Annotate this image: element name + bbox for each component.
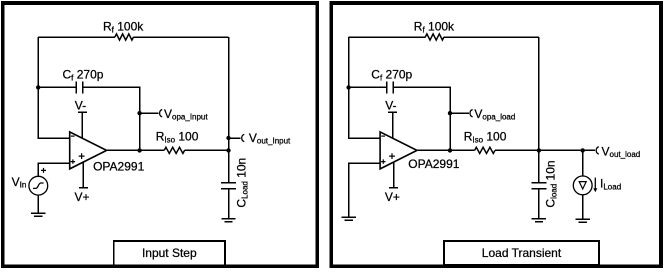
power rail V+ (left panel) [79, 162, 88, 188]
wire: feedback right vertical (left panel) [228, 37, 230, 150]
wire: Cf right lead down to output node (right panel) [394, 87, 450, 150]
wire: feedback right vertical (right panel) [538, 37, 540, 150]
terminal Vout_Input (left panel) [242, 134, 245, 141]
caption box Load Transient (right panel) [444, 241, 599, 265]
svg-text:V-: V- [75, 98, 86, 112]
wire: ILoad to ground (right panel) [582, 195, 584, 220]
capacitor Cload (right panel) [531, 183, 546, 189]
source Vin (left panel) [29, 168, 48, 195]
op-amp U2 OPA2991 (right panel) [380, 132, 417, 169]
ground (Cload, right panel) [532, 219, 546, 222]
junction node Vout tap (left panel) [226, 136, 230, 140]
wire: ILoad top lead (right panel) [582, 150, 584, 176]
wire: Cf left lead (left panel) [38, 86, 75, 88]
resistor Riso (left panel) [164, 147, 184, 153]
svg-text:OPA2991: OPA2991 [408, 157, 459, 171]
wire: Riso to Vout terminal (right panel) [495, 149, 595, 151]
wire: top feedback left segment (left panel) [38, 36, 115, 38]
resistor Riso (right panel) [475, 147, 495, 153]
wire: non-inverting input to ground (right panel) [349, 163, 381, 217]
wire: Vout tap (left panel) [229, 137, 241, 139]
wire: Vopa tap (left panel) [140, 112, 159, 114]
ground (Vin, left panel) [31, 213, 45, 216]
svg-text:Rf 100k: Rf 100k [103, 20, 144, 35]
power rail V- (right panel) [388, 112, 397, 138]
wire: op-amp output (left panel) [107, 149, 165, 151]
junction node feedback/Cf (right panel) [346, 85, 350, 89]
terminal Vopa_Input (left panel) [160, 110, 163, 117]
junction node feedback/Cf (left panel) [36, 85, 40, 89]
wire: op-amp output (right panel) [417, 149, 475, 151]
caption box Input Step (left panel) [114, 241, 225, 265]
ground (ILoad, right panel) [576, 219, 590, 222]
ground (Cload, left panel) [221, 219, 235, 222]
junction node ILoad tap (right panel) [581, 148, 585, 152]
wire: top feedback left segment (right panel) [349, 36, 426, 38]
arrow: ILoad current direction (right panel) [593, 178, 597, 193]
svg-text:RIso 100: RIso 100 [464, 129, 507, 144]
junction node feedback sense (left panel) [137, 148, 141, 152]
svg-text:Load Transient: Load Transient [482, 246, 562, 260]
ground (non-inverting input, right panel) [342, 217, 356, 220]
junction node Vopa (right panel) [448, 111, 452, 115]
svg-text:Cf 270p: Cf 270p [371, 68, 412, 83]
junction node output/Cload (right panel) [537, 148, 541, 152]
wire: Cload top lead (left panel) [228, 150, 230, 182]
op-amp U1 OPA2991 (left panel) [70, 132, 107, 169]
terminal Vopa_load (right panel) [470, 110, 473, 117]
capacitor Cf (left panel) [76, 82, 82, 94]
resistor Rf (left panel) [115, 34, 134, 40]
power rail V- (left panel) [78, 112, 87, 138]
wire: Cload bottom lead (left panel) [228, 189, 230, 218]
capacitor Cload (left panel) [221, 183, 236, 189]
junction node feedback sense (right panel) [448, 148, 452, 152]
wire: Vin to ground (left panel) [37, 195, 39, 213]
svg-text:V-: V- [385, 98, 396, 112]
wire: Riso to output node (left panel) [185, 149, 229, 151]
wire: non-inverting input (left panel) [38, 163, 70, 176]
current source ILoad (right panel) [573, 176, 592, 195]
svg-text:OPA2991: OPA2991 [93, 160, 144, 174]
wire: Cf left lead (right panel) [349, 86, 387, 88]
wire: Cload bottom lead (right panel) [538, 189, 540, 218]
svg-text:Cload 10n: Cload 10n [543, 160, 558, 207]
svg-text:Input Step: Input Step [142, 246, 197, 260]
wire: feedback left vertical + inverting input (right panel) [349, 37, 381, 138]
svg-text:Rf 100k: Rf 100k [414, 20, 455, 35]
wire: top feedback right segment (right panel) [444, 36, 539, 38]
svg-text:Cf 270p: Cf 270p [63, 68, 104, 83]
wire: feedback left vertical + inverting input (left panel) [38, 37, 70, 138]
terminal Vout_load (right panel) [596, 147, 599, 154]
wire: Cload top lead (right panel) [538, 150, 540, 182]
svg-text:V+: V+ [385, 190, 400, 204]
wire: Vopa tap (right panel) [450, 112, 469, 114]
power rail V+ (right panel) [389, 162, 398, 188]
wire: top feedback right segment (left panel) [134, 36, 229, 38]
wire: Cf right lead down to output node (left panel) [83, 87, 139, 150]
resistor Rf (right panel) [425, 34, 444, 40]
junction node output/Cload (left panel) [226, 148, 230, 152]
capacitor Cf (right panel) [387, 82, 393, 94]
junction node Vopa (left panel) [137, 111, 141, 115]
svg-text:RIso 100: RIso 100 [156, 129, 199, 144]
svg-text:V+: V+ [75, 190, 90, 204]
